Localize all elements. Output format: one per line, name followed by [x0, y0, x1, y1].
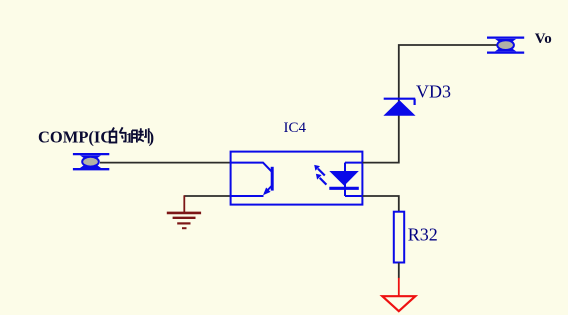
svg-text:VD3: VD3: [416, 81, 451, 101]
phototransistor (IC4 output side): [231, 163, 273, 196]
resistor R32: [394, 212, 404, 263]
wire: optocoupler pin2 to ground stub: [184, 195, 231, 197]
ground GND (earth, dark red): [167, 195, 201, 228]
light arrows: [314, 165, 326, 185]
wire: R32 to power ground: [398, 263, 400, 278]
svg-text:): ): [149, 128, 155, 147]
wire: opto pin3 to resistor R32: [363, 196, 399, 212]
emitter arrowhead: [263, 188, 271, 196]
port Vo: [487, 38, 524, 53]
svg-text:Vo: Vo: [535, 31, 552, 47]
的 glyph: [110, 127, 126, 142]
power ground (red): [382, 278, 415, 311]
LED emitter (IC4 input side): [329, 163, 362, 196]
svg-text:R32: R32: [408, 225, 438, 245]
wire: COMP port to optocoupler pin1: [100, 162, 231, 164]
port COMP: [73, 154, 109, 169]
svg-text:IC4: IC4: [284, 120, 307, 136]
脚 glyph: [132, 128, 149, 143]
optocoupler IC4 body: [231, 152, 363, 205]
wire: opto pin4 to VD3 branch: [363, 45, 498, 163]
diode VD3: [384, 99, 416, 116]
label COMP(IC的1脚): [38, 127, 154, 146]
svg-text:COMP(IC: COMP(IC: [38, 128, 112, 147]
